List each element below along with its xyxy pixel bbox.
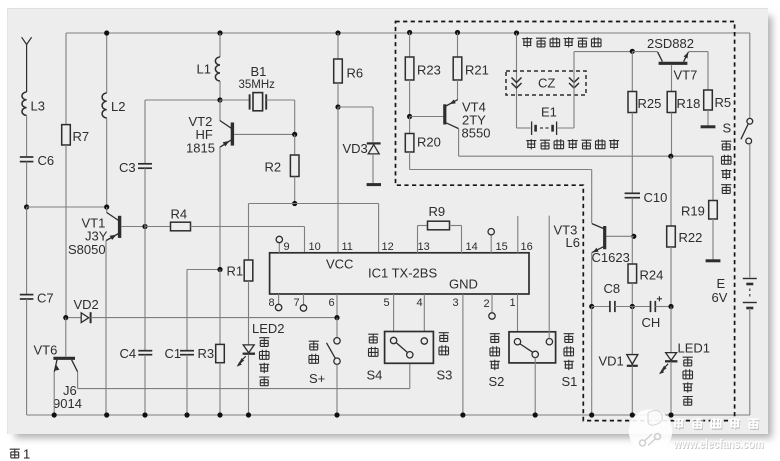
pin 4 lead	[417, 294, 425, 339]
wire VD3 down	[372, 154, 374, 184]
svg-text:6V: 6V	[712, 290, 728, 305]
resistor R19	[681, 156, 717, 219]
resistor R4	[145, 207, 191, 231]
wire C3 to base node	[144, 168, 146, 226]
wire R18 down	[671, 113, 673, 157]
svg-text:S+: S+	[309, 371, 325, 386]
wire VT1 base to R4 node	[121, 226, 145, 228]
svg-text:VD3: VD3	[343, 141, 368, 156]
svg-text:35MHz: 35MHz	[239, 79, 276, 91]
svg-text:5: 5	[384, 297, 390, 309]
resistor R20	[405, 117, 441, 153]
svg-text:B1: B1	[251, 64, 267, 79]
wire VD3 branch	[338, 107, 373, 142]
svg-text:13: 13	[418, 241, 430, 253]
pin 16 riser	[518, 216, 533, 253]
wire R20 to VT3 collector	[410, 152, 592, 223]
node VD1 top junction	[630, 304, 635, 309]
wire CZ left lead	[517, 33, 531, 128]
svg-text:R19: R19	[681, 204, 705, 219]
pin 9 terminal	[276, 236, 290, 253]
resistor R18	[667, 65, 700, 113]
svg-text:S2: S2	[489, 374, 505, 389]
svg-text:CZ: CZ	[538, 76, 555, 91]
wire C10 to VT3 base node	[631, 198, 633, 237]
wire VT2 emitter down	[219, 147, 221, 270]
label remote-car battery pack	[526, 139, 619, 149]
wire R23 to base node	[409, 80, 411, 117]
node C6/rail-L junction	[24, 204, 29, 209]
svg-text:3: 3	[453, 297, 459, 309]
svg-text:E1: E1	[541, 105, 557, 120]
chassis ground under R19	[706, 219, 721, 261]
battery E1	[532, 105, 557, 136]
label accelerate	[309, 341, 319, 363]
wire R6 to VD3 node	[337, 83, 339, 107]
svg-text:1815: 1815	[186, 141, 215, 156]
pin 2 terminal	[484, 294, 496, 319]
svg-text:1: 1	[510, 297, 516, 309]
svg-text:R5: R5	[715, 95, 732, 110]
wire VT3 emitter to ground rail	[591, 307, 593, 416]
resistor R6	[334, 33, 363, 83]
resistor R5	[704, 52, 731, 110]
svg-text:C1623: C1623	[592, 250, 630, 265]
wire VD1 down	[631, 366, 633, 415]
chassis ground under R5	[701, 110, 716, 127]
wire CZ right lead	[558, 52, 633, 128]
svg-text:14: 14	[466, 241, 478, 253]
label LED2 purpose	[259, 338, 269, 387]
capacitor C3	[119, 160, 152, 175]
svg-text:R24: R24	[640, 268, 664, 283]
svg-text:C6: C6	[38, 153, 55, 168]
resistor R21	[453, 33, 489, 81]
svg-text:R23: R23	[417, 63, 441, 78]
wire R1 to LED2	[248, 281, 250, 345]
resistor R3	[198, 270, 225, 363]
svg-text:www.elecfans.com: www.elecfans.com	[673, 436, 764, 451]
node VT3 base junction	[631, 234, 636, 239]
resistor R22	[667, 156, 703, 247]
node R18/R22/R19 junction	[668, 154, 673, 159]
svg-text:10: 10	[309, 241, 321, 253]
LED LED1	[658, 307, 710, 376]
pin 12 label	[382, 241, 394, 253]
wire rail to switch S	[749, 33, 751, 118]
crystal B1	[220, 64, 295, 111]
wire VT6 collector to S4 common	[78, 358, 410, 389]
wire R2 down	[294, 177, 296, 204]
wire S+ down	[336, 364, 338, 415]
svg-text:GND: GND	[449, 277, 478, 292]
svg-text:S8050: S8050	[68, 242, 106, 257]
wire base rail y207	[27, 206, 107, 208]
svg-text:S4: S4	[367, 368, 383, 383]
node VT7 collector junction	[630, 49, 635, 54]
svg-text:E: E	[717, 276, 726, 291]
svg-text:C7: C7	[37, 291, 54, 306]
wire C1 jog	[187, 270, 220, 351]
svg-text:8: 8	[269, 297, 275, 309]
wire R22 down	[670, 247, 672, 307]
pin 5 lead	[384, 294, 394, 337]
node R6 top	[335, 30, 340, 35]
svg-text:LED2: LED2	[252, 321, 285, 336]
ground rail junctions	[104, 412, 674, 417]
node C8 left junction	[589, 304, 594, 309]
svg-text:9014: 9014	[53, 396, 82, 411]
wire bottom ground rail	[27, 414, 750, 416]
wire VT2 base	[234, 133, 295, 135]
svg-text:R18: R18	[677, 96, 701, 111]
label charge output socket	[522, 37, 601, 47]
svg-text:7: 7	[294, 297, 300, 309]
svg-text:R6: R6	[347, 66, 364, 81]
svg-text:C1: C1	[165, 346, 182, 361]
wire LED1 down	[670, 362, 672, 415]
wire antenna to C6	[26, 115, 28, 156]
svg-text:C4: C4	[120, 346, 137, 361]
node VT2 collector junction	[217, 97, 222, 102]
label left turn	[562, 334, 578, 389]
node CZ top	[514, 30, 519, 35]
node pin6/VD2/S+ junction	[334, 315, 339, 320]
diode VD1	[599, 307, 638, 369]
node R21 top	[455, 30, 460, 35]
svg-text:CH: CH	[642, 315, 661, 330]
svg-text:2: 2	[484, 298, 490, 310]
node L1 top	[217, 30, 222, 35]
wire C3 net	[145, 100, 220, 163]
pin 13 to R9	[418, 226, 430, 254]
figure caption	[10, 447, 31, 461]
capacitor CH electrolytic	[632, 296, 671, 330]
svg-text:IC1 TX-2BS: IC1 TX-2BS	[368, 266, 437, 281]
wire C7 to ground rail	[26, 299, 28, 415]
resistor R7	[62, 33, 89, 145]
wire C4 down	[144, 355, 146, 415]
node VT6 emitter ground	[52, 412, 57, 417]
capacitor C6	[20, 153, 54, 206]
pin 14 from R9	[450, 226, 478, 254]
node VT1 collector junction	[104, 204, 109, 209]
svg-text:L2: L2	[111, 99, 125, 114]
wire VD2 to pin6 node	[91, 317, 337, 319]
svg-text:S3: S3	[437, 368, 453, 383]
svg-text:R25: R25	[638, 96, 662, 111]
inductor L1	[197, 33, 221, 81]
pin 3 lead	[453, 294, 463, 415]
wire top supply rail	[66, 32, 750, 34]
svg-text:R4: R4	[171, 207, 188, 222]
wire L2 to VT1	[106, 118, 108, 207]
switch S2 S1 turn box	[509, 332, 556, 363]
capacitor C4	[120, 227, 153, 362]
label right turn	[489, 334, 505, 389]
capacitor C10	[625, 190, 668, 205]
node VT4 base junction	[407, 114, 412, 119]
dashed remote-car boundary	[396, 22, 735, 421]
transistor VT2	[186, 100, 232, 156]
svg-text:VT6: VT6	[34, 343, 58, 358]
inductor L2	[102, 33, 125, 118]
resistor R9	[428, 204, 450, 230]
svg-text:C10: C10	[644, 190, 668, 205]
label charge indicator	[683, 357, 693, 406]
svg-text:R9: R9	[429, 204, 446, 219]
LED LED2	[236, 321, 285, 368]
svg-text:L3: L3	[31, 99, 45, 114]
pin 6 lead	[329, 294, 338, 318]
svg-text:15: 15	[496, 241, 508, 253]
label power switch	[721, 141, 731, 194]
antenna	[22, 37, 32, 92]
svg-text:VT7: VT7	[674, 68, 698, 83]
svg-text:LED1: LED1	[678, 341, 711, 356]
label backward	[437, 333, 453, 383]
resistor R24	[628, 236, 663, 283]
top rail junction L2	[104, 30, 109, 35]
svg-text:11: 11	[342, 241, 353, 253]
watermark site name	[673, 418, 765, 452]
node VT2 base junction	[292, 132, 297, 137]
svg-text:9: 9	[284, 241, 290, 253]
wire R24 down	[631, 283, 633, 307]
inductor L3	[22, 92, 45, 115]
node R23 top	[407, 30, 412, 35]
resistor R2	[265, 134, 300, 176]
transistor VT1	[68, 207, 120, 257]
wire R3 down	[219, 363, 221, 415]
svg-text:R2: R2	[265, 160, 282, 175]
node R2 bottom junction	[292, 201, 297, 206]
node R6/VD3 junction	[335, 104, 340, 109]
wire VT3 emitter down	[591, 252, 593, 306]
zener diode VD3	[343, 141, 381, 156]
switch S+ accelerate	[309, 318, 340, 386]
wire L1 to node	[219, 81, 221, 100]
svg-text:2SD882: 2SD882	[647, 36, 694, 51]
svg-text:8550: 8550	[462, 126, 491, 141]
resistor R23	[405, 33, 441, 81]
svg-text:16: 16	[521, 241, 533, 253]
svg-text:R21: R21	[465, 63, 489, 78]
node base/C3/R4 junction	[142, 224, 147, 229]
svg-text:R3: R3	[198, 346, 215, 361]
pin 7 terminal	[294, 294, 307, 311]
battery E 6V	[712, 276, 757, 308]
wire switch to battery E	[749, 144, 751, 278]
node CH right junction	[668, 304, 673, 309]
resistor R25	[628, 52, 661, 113]
diode VD2	[69, 297, 99, 323]
node VT2 emitter junction	[217, 267, 222, 272]
pin 10 lead	[309, 241, 321, 253]
wire VT4 collector to R19 net	[459, 128, 713, 156]
capacitor C8	[592, 281, 633, 312]
svg-text:VCC: VCC	[326, 257, 353, 272]
svg-text:6: 6	[329, 297, 335, 309]
svg-text:R20: R20	[417, 135, 441, 150]
pin 8 terminal	[269, 294, 282, 311]
wire S2 common down	[534, 358, 536, 415]
transistor VT3	[554, 223, 634, 266]
IC U1 TX-2BS body	[270, 253, 529, 294]
charge socket CZ	[506, 71, 586, 95]
wire R4 to pin10	[191, 227, 305, 253]
watermark logo	[629, 409, 673, 453]
chassis ground under VD3	[367, 183, 381, 186]
svg-text:L1: L1	[197, 62, 211, 77]
pin 11 label	[342, 241, 353, 253]
svg-text:12: 12	[382, 241, 394, 253]
transistor VT6	[34, 343, 82, 412]
wire VT1 emitter down	[105, 241, 107, 416]
svg-text:R7: R7	[73, 129, 90, 144]
label forward	[367, 334, 383, 382]
svg-text:C8: C8	[604, 281, 621, 296]
svg-text:4: 4	[417, 297, 423, 309]
transistor VT7	[632, 36, 708, 83]
switch S power	[723, 118, 753, 144]
transistor VT4	[410, 80, 491, 141]
svg-text:R22: R22	[679, 230, 703, 245]
wire left column down	[26, 207, 28, 294]
wire R6 node to pin11	[337, 107, 339, 253]
wire R25 to C10	[631, 113, 633, 193]
wire LED2 down	[248, 355, 250, 416]
svg-text:L6: L6	[566, 235, 580, 250]
capacitor C7	[20, 291, 54, 306]
wire bias net y203	[249, 204, 379, 253]
wire VT6 emitter	[53, 372, 55, 416]
svg-text:S1: S1	[562, 374, 578, 389]
wire S1 floating riser	[548, 216, 550, 339]
switch S4 S3 forward/back box	[385, 332, 434, 364]
wire C1 down	[186, 355, 188, 415]
pin 15 terminal	[488, 229, 508, 254]
resistor R1	[227, 204, 253, 282]
capacitor C1	[165, 346, 195, 361]
pin 1 lead	[510, 294, 518, 339]
svg-text:S: S	[723, 121, 732, 136]
svg-text:C3: C3	[119, 160, 136, 175]
svg-text:1: 1	[23, 447, 30, 461]
wire battery to ground rail	[749, 308, 751, 415]
wire crystal to base node	[294, 100, 296, 134]
node VD2 anode junction	[63, 315, 68, 320]
wire R7 to VD2 node	[65, 145, 67, 318]
svg-text:VD2: VD2	[74, 297, 99, 312]
svg-text:R1: R1	[227, 264, 244, 279]
wire VD2 node to VT6 base	[65, 318, 67, 357]
svg-text:VD1: VD1	[599, 354, 624, 369]
